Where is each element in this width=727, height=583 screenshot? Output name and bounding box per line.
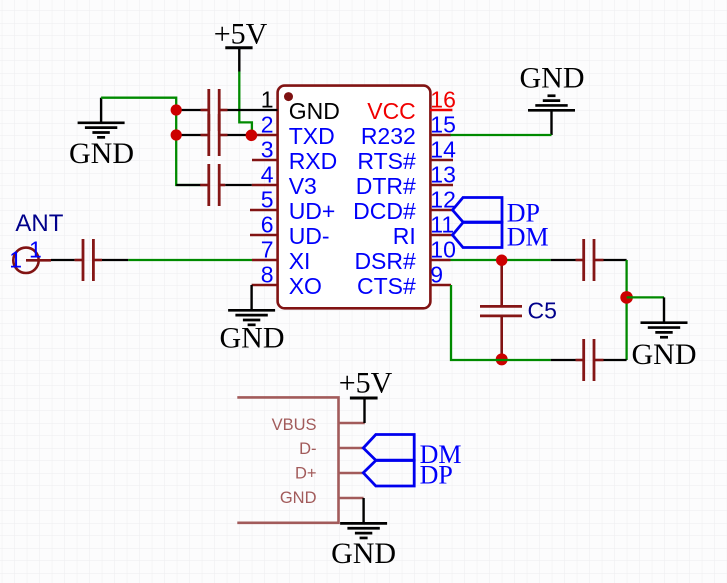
svg-text:1: 1 <box>29 236 42 262</box>
svg-text:8: 8 <box>261 262 274 288</box>
svg-text:R232: R232 <box>361 123 416 149</box>
svg-text:UD-: UD- <box>289 223 330 249</box>
svg-text:+5V: +5V <box>214 18 268 51</box>
svg-text:GND: GND <box>632 338 697 371</box>
svg-text:DP: DP <box>420 461 453 490</box>
pin 4 (V3) <box>252 162 317 200</box>
svg-text:2: 2 <box>261 112 274 138</box>
wire GND to vertical bus (green) <box>101 98 200 185</box>
pin VBUS stub <box>339 422 365 424</box>
pin 8 (XO) <box>252 262 322 300</box>
net port DP (USB D+) <box>363 461 453 490</box>
wire pin15 to GND (green) <box>451 134 552 136</box>
svg-text:RI: RI <box>393 223 416 249</box>
svg-text:GND: GND <box>220 322 285 355</box>
wire junction to GND (green then black) <box>627 296 664 298</box>
junction dot (+5V at pin2) <box>246 130 258 142</box>
svg-text:5: 5 <box>261 187 274 213</box>
wire pin10 to cap (green then black) <box>451 259 551 261</box>
svg-text:C5: C5 <box>528 298 557 324</box>
pin GND stub <box>339 497 364 499</box>
wire cap to pin1 (black) <box>176 109 200 111</box>
svg-text:D-: D- <box>299 440 316 458</box>
svg-text:VCC: VCC <box>367 98 416 124</box>
junction dot (bottom net) <box>496 353 508 365</box>
wire cap to pin2 (black) <box>176 134 200 136</box>
svg-text:10: 10 <box>430 237 456 263</box>
svg-text:DSR#: DSR# <box>354 248 416 274</box>
svg-text:7: 7 <box>261 237 274 263</box>
svg-text:GND: GND <box>289 98 340 124</box>
net port DP (pin 12) <box>453 198 540 228</box>
capacitor (ANT series) <box>75 239 102 281</box>
svg-text:15: 15 <box>430 112 456 138</box>
connector USB body <box>237 397 338 522</box>
svg-text:4: 4 <box>261 162 274 188</box>
power +5V (top) <box>214 18 268 72</box>
pin 2 (TXD) <box>251 112 335 150</box>
pin 13 (DTR#) <box>356 162 456 200</box>
wire ANT to cap (black) <box>51 259 75 261</box>
svg-text:9: 9 <box>430 262 443 288</box>
junction dot (pin1 net) <box>171 104 182 115</box>
capacitor (right bottom) <box>576 339 604 381</box>
wire cap to right bus (black) <box>604 259 627 261</box>
svg-text:RXD: RXD <box>289 148 338 174</box>
svg-text:DCD#: DCD# <box>353 198 416 224</box>
capacitor (pin1 decoupling) <box>201 89 228 131</box>
capacitor (pin2 decoupling) <box>201 114 228 156</box>
pin 9 (CTS#) <box>357 262 451 300</box>
svg-text:14: 14 <box>430 137 456 163</box>
power +5V (bottom) <box>339 367 393 424</box>
capacitor C5 <box>480 298 557 360</box>
svg-text:GND: GND <box>520 62 585 95</box>
wire cap to right bus bottom (black) <box>604 359 627 361</box>
pin D+ stub <box>339 472 364 474</box>
ground GND (bottom USB) <box>331 498 396 570</box>
svg-text:13: 13 <box>430 162 456 188</box>
svg-text:GND: GND <box>331 537 396 570</box>
wire cap to pin7 (black then green) <box>102 259 128 261</box>
pin 16 (VCC) <box>367 87 456 125</box>
wire cap to pin4 (black) <box>225 184 252 186</box>
pin 12 (DCD#) <box>353 187 456 225</box>
antenna connector ANT <box>9 210 63 273</box>
wire to bottom cap (black) <box>551 359 576 361</box>
wire pin10 junction to C5 (maroon lead) <box>500 260 503 306</box>
IC U1 body <box>278 86 431 309</box>
capacitor (V3 pin4) <box>200 164 225 206</box>
pin D- stub <box>339 447 364 449</box>
svg-text:16: 16 <box>430 87 456 113</box>
ground GND (top right, flipped) <box>520 62 585 135</box>
ground GND (top left) <box>69 98 134 170</box>
svg-text:RTS#: RTS# <box>357 148 416 174</box>
svg-text:1: 1 <box>9 247 22 273</box>
pin 6 (UD-) <box>250 212 330 250</box>
svg-text:GND: GND <box>69 137 134 170</box>
net port DM (pin 11) <box>453 223 549 252</box>
svg-text:GND: GND <box>280 489 317 507</box>
svg-text:XO: XO <box>289 273 322 299</box>
svg-text:ANT: ANT <box>15 210 63 237</box>
ground GND (right) <box>632 323 697 371</box>
pin 1 (GND) <box>261 87 340 125</box>
wire pin9 down and right (green) <box>451 285 551 360</box>
pin 5 (UD+) <box>250 187 335 225</box>
pin 10 (DSR#) <box>354 237 455 275</box>
svg-text:D+: D+ <box>295 464 317 482</box>
svg-text:DM: DM <box>507 223 549 252</box>
capacitor (right top) <box>576 239 604 281</box>
pin 7 (XI) <box>252 237 310 275</box>
pin 14 (RTS#) <box>357 137 456 175</box>
wire right bus vertical (green) <box>625 260 627 360</box>
net port DM (USB D-) <box>363 435 461 470</box>
pin 11 (RI) <box>393 212 454 250</box>
junction dot (pin2 net) <box>171 129 182 140</box>
junction dot (pin10 net) <box>496 255 507 266</box>
svg-text:6: 6 <box>261 212 274 238</box>
svg-text:UD+: UD+ <box>289 198 336 224</box>
svg-text:CTS#: CTS# <box>357 273 416 299</box>
svg-text:DTR#: DTR# <box>356 173 416 199</box>
svg-text:V3: V3 <box>289 173 317 199</box>
svg-text:TXD: TXD <box>289 123 335 149</box>
svg-text:XI: XI <box>289 248 311 274</box>
junction dot (right bus) <box>620 291 633 304</box>
svg-text:VBUS: VBUS <box>272 416 317 434</box>
svg-text:3: 3 <box>261 137 274 163</box>
svg-text:1: 1 <box>261 87 274 113</box>
pin 15 (R232) <box>361 112 456 150</box>
wire +5V to junction (green) <box>239 72 252 136</box>
pin 3 (RXD) <box>252 137 337 175</box>
svg-text:+5V: +5V <box>339 367 393 400</box>
svg-text:11: 11 <box>430 212 454 238</box>
ground GND (below pin 8) <box>220 285 285 355</box>
